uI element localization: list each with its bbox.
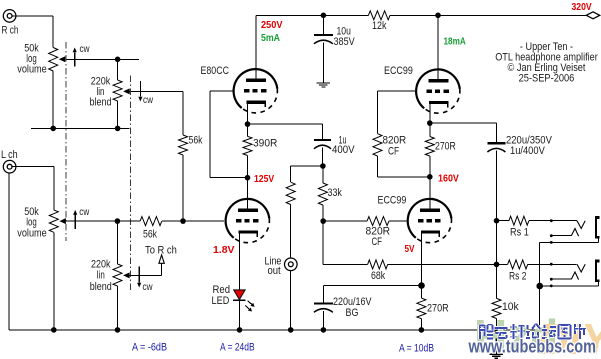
node E80CC upper cathode <box>245 121 251 127</box>
label 250V <box>261 19 283 31</box>
ground main <box>490 330 503 358</box>
wire ground bus <box>9 329 541 331</box>
node Rs2 junction <box>494 262 500 268</box>
svg-text:Rs 1: Rs 1 <box>510 227 529 239</box>
label 50k log volume R <box>17 43 47 76</box>
svg-text:270R: 270R <box>427 303 449 315</box>
label 270R lower <box>427 303 449 315</box>
svg-text:ECC99: ECC99 <box>384 65 413 77</box>
wire cathode to LED <box>239 242 241 290</box>
label Rs 2 <box>509 271 527 283</box>
svg-text:56k: 56k <box>143 229 157 241</box>
svg-text:E80CC: E80CC <box>201 65 230 77</box>
node 1u/33k/divider <box>320 163 326 169</box>
resistor 33k <box>318 166 327 221</box>
node main ground stem <box>493 327 499 333</box>
svg-text:12k: 12k <box>372 20 387 32</box>
svg-text:L ch: L ch <box>1 149 18 161</box>
node 270R ground <box>419 327 425 333</box>
wire to 1u cap <box>322 124 324 140</box>
label 56k R <box>189 135 203 147</box>
node 160V <box>427 174 433 180</box>
svg-text:cw: cw <box>79 207 90 218</box>
wire 220k L top <box>117 221 119 264</box>
label 5mA <box>261 32 280 44</box>
label 220k lin blend R <box>90 76 112 109</box>
resistor 270R upper <box>425 123 434 177</box>
wire E80CC anode to B+ <box>255 15 257 80</box>
label ECC99 upper <box>384 65 413 77</box>
wire 56k R to grid node <box>182 155 184 221</box>
svg-text:BG: BG <box>346 307 359 319</box>
tube E80CC upper triode U1a <box>234 69 278 113</box>
label Rs 1 <box>510 227 529 239</box>
svg-text:out: out <box>268 265 281 277</box>
jack line out <box>285 258 298 271</box>
label 18mA <box>444 36 467 48</box>
wire cathode to 1u cap <box>248 123 323 125</box>
svg-text:5mA: 5mA <box>261 32 280 44</box>
svg-text:160V: 160V <box>438 173 459 185</box>
wire L jack shell to ground <box>8 173 10 330</box>
label 68k <box>371 270 386 282</box>
wire cathode to output cap <box>430 123 497 143</box>
label 820R CF lower <box>366 226 391 249</box>
label A=-6dB <box>132 342 167 354</box>
node 125V <box>245 175 251 181</box>
wire anode from 160V <box>429 177 431 210</box>
wire 50k L bottom <box>53 232 55 330</box>
label ECC99 lower <box>378 195 407 207</box>
label 56k L <box>143 229 157 241</box>
svg-text:volume: volume <box>17 228 47 240</box>
jack L ch input <box>3 160 16 173</box>
svg-text:To R ch: To R ch <box>145 245 177 257</box>
wire output cap down <box>495 151 497 221</box>
label To R ch <box>145 245 177 257</box>
wire ECC99 lower cathode <box>421 242 423 286</box>
tube ECC99 lower U2b <box>408 199 452 243</box>
wire ECC99 upper grid to 820R <box>378 91 416 134</box>
gang line blend pots <box>129 76 131 292</box>
label 50k log volume L <box>17 206 47 240</box>
svg-text:250V: 250V <box>261 19 283 31</box>
arrow cw L volume <box>73 210 77 229</box>
node 33k bottom / grid feed <box>320 218 326 224</box>
wire LED to ground bus <box>239 301 241 330</box>
jack R ch input <box>3 10 16 23</box>
svg-text:33k: 33k <box>328 187 343 199</box>
label 320V <box>572 1 592 13</box>
label 220u/350V 1u/400V <box>506 135 552 158</box>
wire grid node down <box>322 221 324 264</box>
svg-text:18mA: 18mA <box>444 36 467 48</box>
label 220u/16V BG <box>333 296 372 319</box>
node BG cap ground <box>321 327 327 333</box>
potentiometer 220k lin blend R <box>113 80 183 101</box>
label Red LED <box>212 284 231 307</box>
svg-text:R ch: R ch <box>2 25 19 37</box>
resistor Rs 1 <box>497 216 578 225</box>
wire line out to ground bus <box>290 270 292 330</box>
resistor 56k L <box>117 217 183 226</box>
svg-text:cw: cw <box>143 95 154 106</box>
potentiometer 50k log volume L <box>49 210 117 232</box>
node LED ground <box>237 327 243 333</box>
label cw L blend <box>143 282 154 293</box>
wire L jack to pot <box>12 167 54 210</box>
svg-text:25-SEP-2006: 25-SEP-2006 <box>519 73 575 85</box>
label R ch <box>2 25 19 37</box>
svg-text:A = -6dB: A = -6dB <box>132 342 167 354</box>
svg-text:lin: lin <box>97 270 105 282</box>
svg-text:ECC99: ECC99 <box>378 195 407 207</box>
label A=10dB <box>399 343 434 355</box>
ground 10u <box>317 83 330 87</box>
svg-text:blend: blend <box>90 97 112 109</box>
label L ch <box>1 149 18 161</box>
arrow cw R blend <box>138 81 142 102</box>
svg-text:270R: 270R <box>435 141 456 153</box>
svg-text:Rs 2: Rs 2 <box>509 271 527 283</box>
svg-text:volume: volume <box>17 64 47 76</box>
label 1.8V <box>213 244 235 256</box>
svg-text:1u/400V: 1u/400V <box>510 145 545 157</box>
node 220k L ground <box>115 327 121 333</box>
node R wiper / 220k top <box>115 57 121 63</box>
title block <box>495 41 598 85</box>
LED red D1 <box>233 290 255 312</box>
wire B+ to 10u cap <box>322 15 324 35</box>
svg-text:www.tubebbs.com: www.tubebbs.com <box>468 337 596 357</box>
label cw R volume <box>80 44 91 55</box>
wire ECC99 upper cathode <box>429 112 431 123</box>
resistor 10k <box>492 264 501 330</box>
resistor 56k R <box>179 135 188 155</box>
wire to R ch arrow <box>159 255 164 276</box>
terminal 320V diamond <box>586 12 599 19</box>
wire sleeve return <box>539 242 541 330</box>
node L wiper / 220k top <box>115 218 121 224</box>
label E80CC <box>201 65 230 77</box>
wire divider top <box>291 166 323 182</box>
label Line out <box>265 256 282 278</box>
node line out ground <box>288 327 294 333</box>
capacitor 1u/400V <box>314 140 331 149</box>
svg-text:CF: CF <box>388 146 399 158</box>
wire output rail <box>496 221 498 265</box>
wire 10u to ground <box>322 43 324 83</box>
label 125V <box>254 173 274 185</box>
label 1u 400V <box>332 135 355 157</box>
resistor 12k <box>368 11 390 20</box>
wire divider to line out <box>290 205 292 259</box>
svg-text:blend: blend <box>90 281 112 293</box>
label 33k <box>328 187 343 199</box>
svg-text:390R: 390R <box>253 138 277 150</box>
potentiometer 50k log volume R <box>49 48 139 72</box>
capacitor 220u/350V 1u/400V <box>487 143 505 152</box>
label cw R blend <box>143 95 154 106</box>
svg-text:LED: LED <box>212 295 230 307</box>
svg-text:A = 10dB: A = 10dB <box>399 343 434 355</box>
svg-text:1.8V: 1.8V <box>213 244 235 256</box>
wire lower E80CC grid <box>183 220 224 222</box>
resistor Rs 2 <box>497 260 577 269</box>
node grid/56k junction <box>180 218 186 224</box>
wire R blend wiper to 56k <box>182 91 184 135</box>
svg-text:cw: cw <box>143 282 154 293</box>
wire anode from 125V <box>247 178 249 210</box>
resistor 270R lower <box>417 286 426 330</box>
label A=24dB <box>220 342 255 354</box>
resistor 68k <box>323 260 496 269</box>
node 50k L ground <box>51 327 57 333</box>
wire 220k L bottom <box>117 286 119 330</box>
svg-text:320V: 320V <box>572 1 592 13</box>
capacitor 220u/16V BG <box>314 286 422 330</box>
label 10k <box>502 301 519 313</box>
wire 220k R bottom <box>117 101 119 128</box>
watermark tubebbs <box>468 310 601 359</box>
label 270R upper <box>435 141 456 153</box>
label cw L volume <box>79 207 90 218</box>
tube ECC99 upper U2a <box>416 69 460 113</box>
node ECC99 anode junction <box>435 13 441 19</box>
capacitor 10u/385V <box>314 35 333 44</box>
wire B+ top rail <box>256 14 587 16</box>
headphone jack J1 <box>540 216 600 244</box>
wire E80CC upper grid <box>210 91 248 178</box>
tube E80CC lower triode U1b <box>226 199 270 243</box>
label 160V <box>438 173 459 185</box>
svg-text:385V: 385V <box>334 36 356 48</box>
headphone jack J2 <box>540 260 600 288</box>
label 10u 385V <box>334 26 356 49</box>
gang line volume pots <box>65 42 67 241</box>
label 12k <box>372 20 387 32</box>
arrow cw R volume <box>73 48 77 67</box>
arrow cw L blend <box>137 267 141 288</box>
svg-text:CF: CF <box>372 236 383 248</box>
label 390R <box>253 138 277 150</box>
svg-text:400V: 400V <box>332 144 355 156</box>
node Rs1 junction <box>494 218 500 224</box>
resistor 820R CF upper <box>373 134 430 177</box>
resistor 390R <box>243 124 252 178</box>
wire R ground bus <box>31 127 129 129</box>
label 820R CF upper <box>383 135 407 158</box>
wire 1u to 33k node <box>322 148 324 167</box>
wire R jack to pot <box>12 16 53 48</box>
wire 220k R top <box>117 59 119 80</box>
svg-text:125V: 125V <box>254 173 274 185</box>
wire 50k R bottom <box>52 71 54 128</box>
svg-text:5V: 5V <box>405 243 415 255</box>
svg-text:68k: 68k <box>371 270 386 282</box>
node ECC99 upper cathode <box>427 120 433 126</box>
node 220k R bottom <box>115 126 121 132</box>
label 5V <box>405 243 415 255</box>
label 220k lin blend L <box>90 259 112 293</box>
svg-text:A = 24dB: A = 24dB <box>220 342 255 354</box>
potentiometer 220k lin blend L <box>113 264 162 286</box>
node B+ / 10u junction <box>321 13 327 19</box>
node lower cathode <box>418 282 425 289</box>
wire ECC99 anode to B+ <box>437 15 439 80</box>
node 50k R bottom <box>50 126 56 132</box>
svg-text:56k: 56k <box>189 135 203 147</box>
node jack2 sleeve junction <box>536 283 543 290</box>
resistor divider (unlabeled) <box>286 182 295 204</box>
wire E80CC upper cathode <box>247 112 249 124</box>
svg-text:cw: cw <box>80 44 91 55</box>
resistor 820R CF lower <box>323 217 407 226</box>
